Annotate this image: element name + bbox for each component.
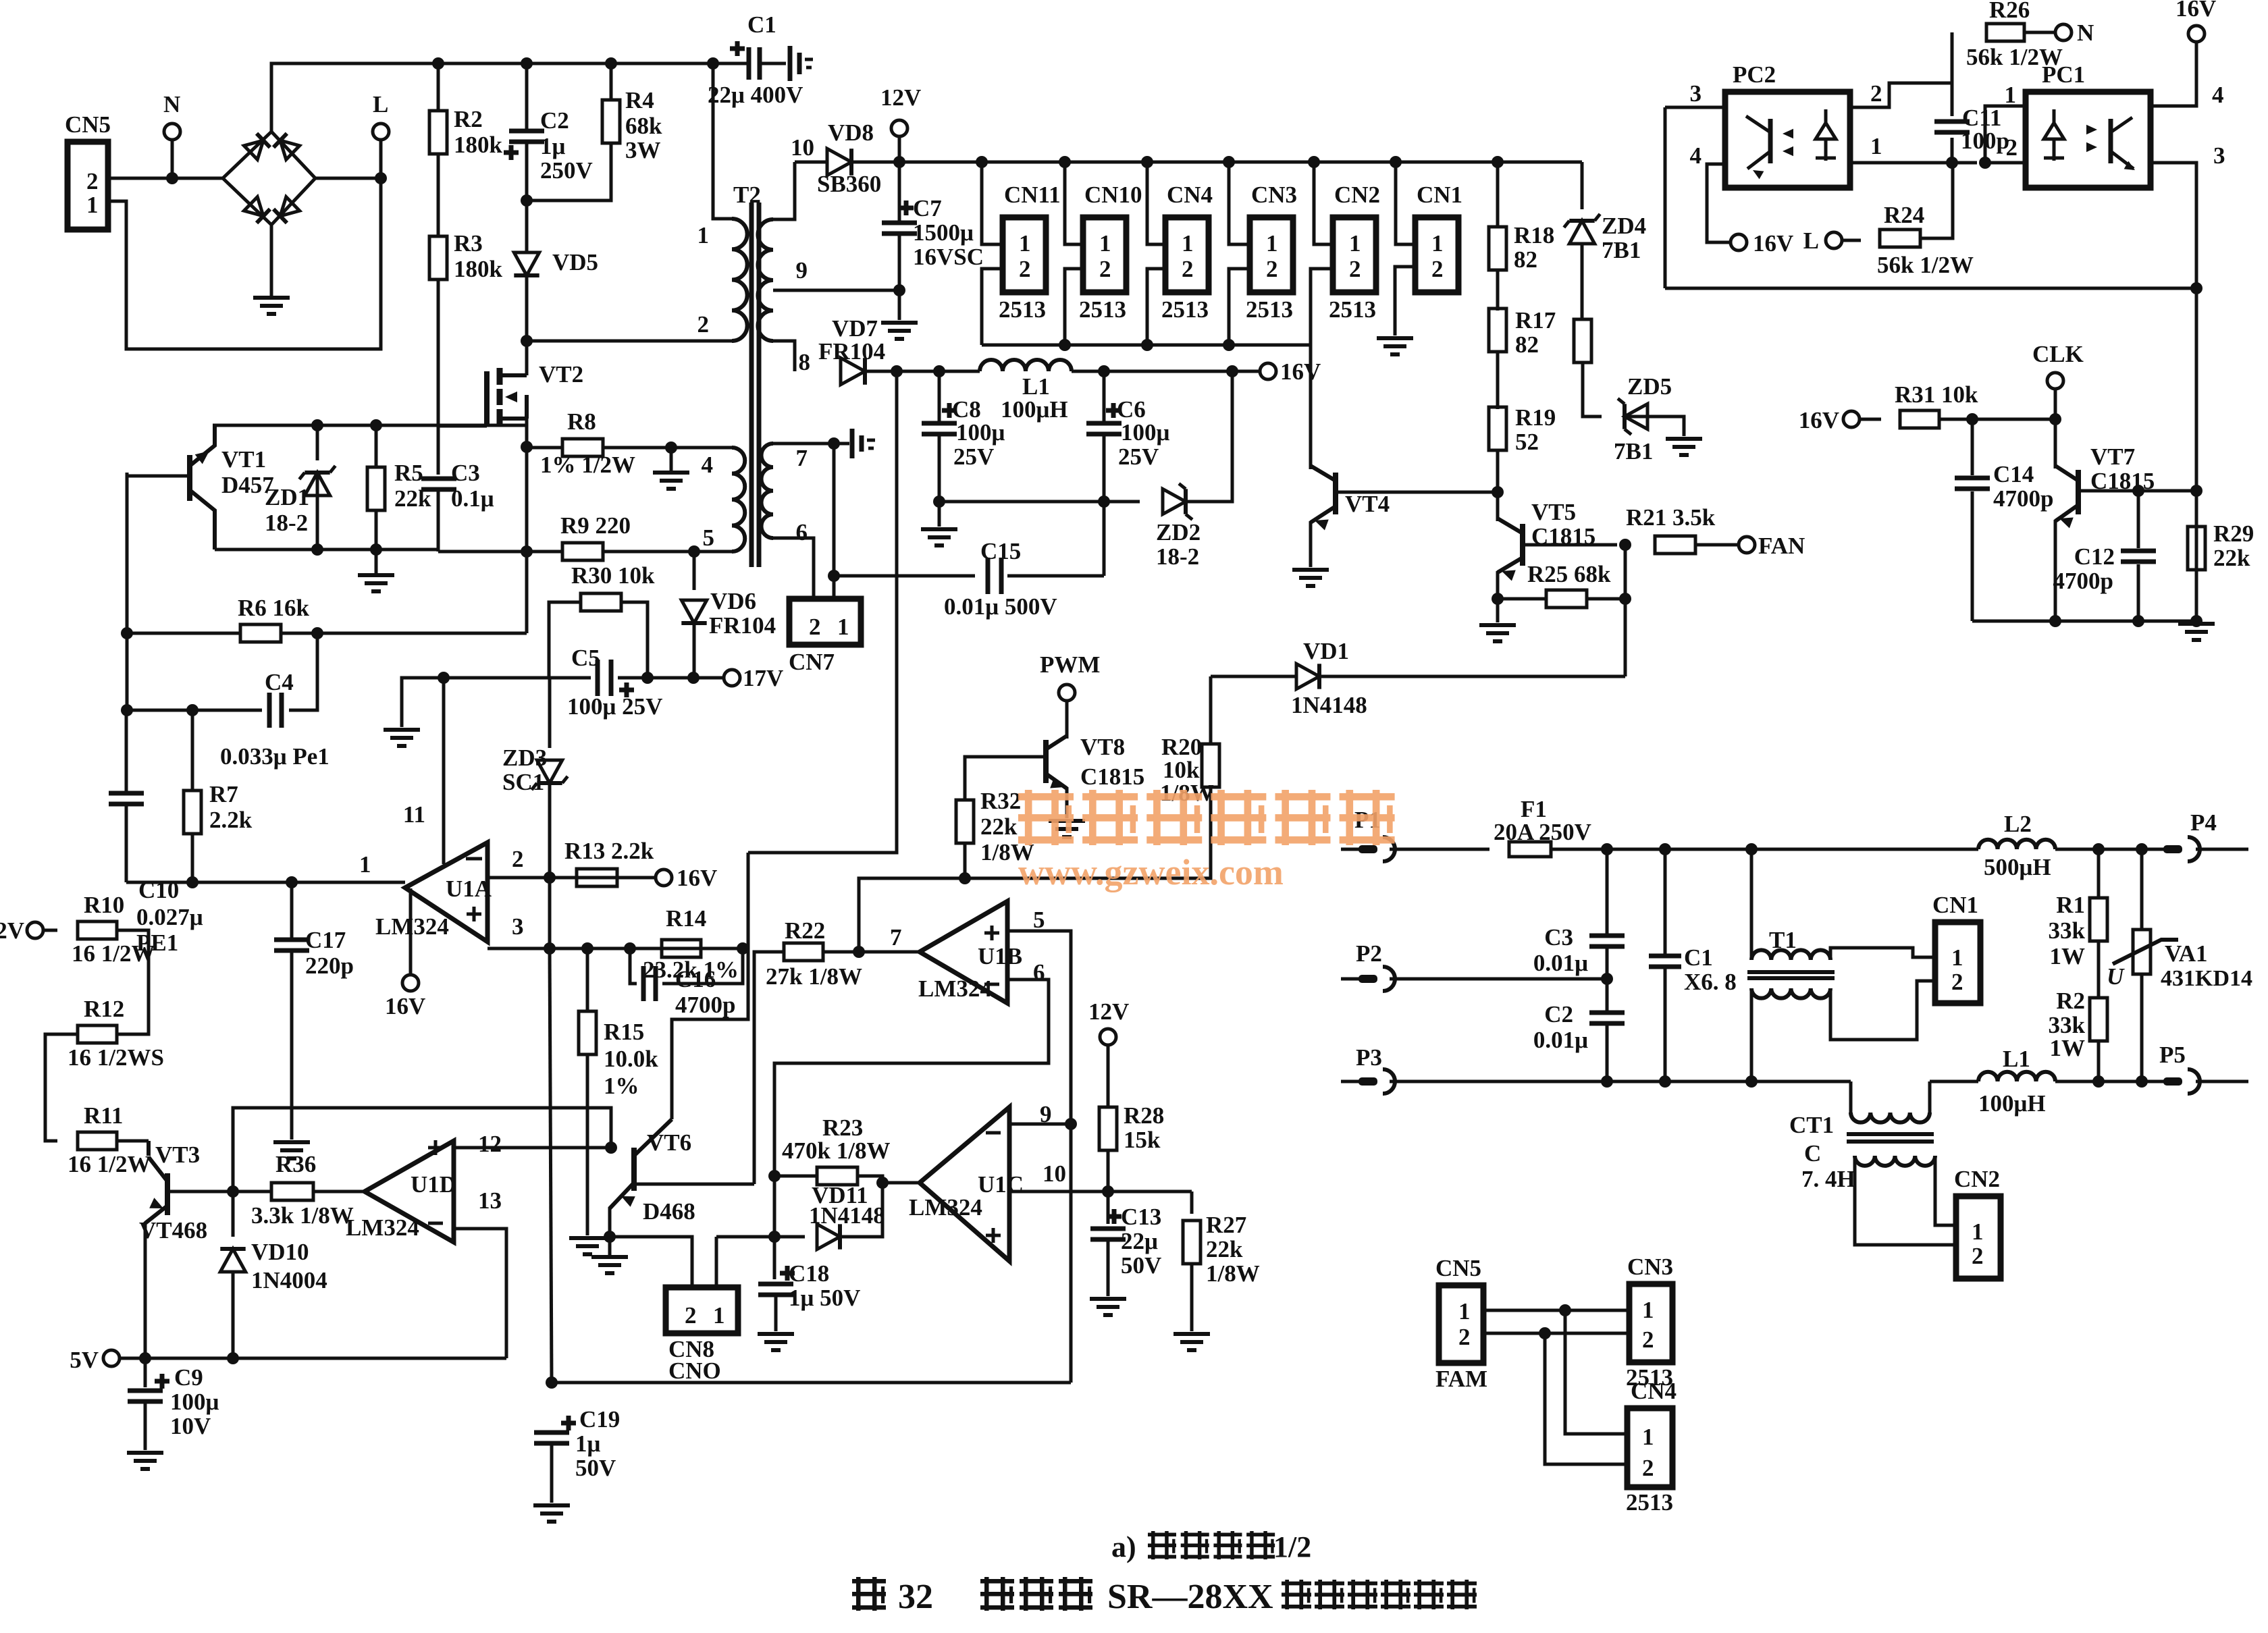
svg-text:4700p: 4700p [2053,568,2113,594]
C1f bot [1664,967,1667,1081]
capacitor C8 [922,423,957,434]
connector CN3 disp [1629,1284,1672,1362]
wire C3 top [437,426,440,475]
svg-text:P4: P4 [2190,809,2217,836]
fuse F1 [1509,842,1551,857]
resistor R17 [1489,309,1506,352]
VT8 coll [1065,701,1069,739]
svg-text:2: 2 [1019,256,1031,282]
node R6 left [121,627,133,639]
node c5 left [438,672,450,684]
connector CN4 disp [1627,1408,1672,1487]
diode VD10 [220,1249,245,1272]
CLK down [2054,389,2057,419]
VT7 emit diag [2055,505,2078,521]
svg-text:2: 2 [1431,256,1444,282]
capacitor C3 filter [1589,936,1625,946]
node vd7 b [933,365,945,377]
svg-text:FR104: FR104 [818,338,885,365]
wire C2 top [525,63,529,131]
node c6 top [1098,365,1110,377]
svg-text:0.01μ: 0.01μ [1533,950,1588,976]
wire bridge top up [270,130,273,134]
svg-text:VD5: VD5 [552,249,598,275]
U1A pin4 16V stub [409,888,413,975]
PC1 innards [2044,123,2064,158]
svg-text:0.033μ Pe1: 0.033μ Pe1 [220,743,329,770]
svg-text:2: 2 [86,168,99,194]
T1 sec right [1830,981,1935,1040]
svg-text:1W: 1W [2050,943,2086,969]
C13 bottom [1107,1239,1110,1296]
node cn4 p1 [1559,1304,1571,1316]
node L-junction [375,172,387,184]
svg-text:CT1: CT1 [1789,1112,1834,1138]
VA1 bot [2140,975,2144,1081]
svg-text:2: 2 [1458,1324,1471,1350]
svg-text:16V: 16V [1280,358,1321,385]
wire bridge bottom [270,225,273,298]
svg-text:CN11: CN11 [1004,182,1061,208]
resistor R14 [662,940,701,957]
C9 plus [155,1374,169,1389]
resistor R19 [1489,407,1506,450]
svg-text:22μ 400V: 22μ 400V [708,82,803,108]
svg-text:1: 1 [86,192,99,218]
wire VT2s down [525,447,529,633]
svg-text:X6. 8: X6. 8 [1684,969,1737,995]
VD10 top wire [232,1192,235,1237]
svg-text:1: 1 [1642,1424,1654,1450]
wire cn8 right pin [715,1237,718,1287]
wire pin9 [773,289,899,292]
node C2-R4 [521,194,533,207]
transformer T2 winding 7-6 [762,444,774,538]
C18 bottom [774,1295,778,1331]
terminal 17V [724,670,740,686]
svg-text:16V: 16V [385,993,425,1019]
C5 plus [619,682,634,697]
svg-text:1N4004: 1N4004 [251,1267,327,1293]
PC2 arrow1 [1783,129,1793,138]
ground C19 [533,1505,570,1522]
capacitor C4 [269,693,282,728]
C19 bottom [550,1443,554,1503]
node gnd vt7 c [2190,615,2203,627]
wire CN5.2 to bridge [108,177,223,180]
C7 top [898,162,901,223]
VT4 base wire [1336,491,1498,494]
CT1 dip right [1928,1081,1932,1113]
svg-text:C16: C16 [675,966,716,992]
svg-text:R24: R24 [1884,202,1924,228]
svg-text:50V: 50V [575,1455,616,1481]
svg-text:1μ: 1μ [575,1430,601,1457]
svg-text:2513: 2513 [1079,296,1126,323]
ground VT5 [1479,625,1516,641]
wire 12V rail2 [851,161,1582,164]
svg-text:1: 1 [697,222,710,248]
capacitor C9 [128,1391,163,1401]
node r21 left [1619,539,1631,551]
resistor R7 [184,791,201,834]
caption a hanzi [1148,1531,1176,1559]
wire L down [379,140,383,178]
svg-text:22k: 22k [2213,545,2250,571]
U1C plus [986,1228,1001,1243]
svg-text:R13 2.2k: R13 2.2k [564,838,654,864]
CT1 sec right [1935,1156,1956,1225]
svg-text:25V: 25V [1118,444,1159,470]
resistor R15 [579,1011,596,1054]
R22 right [823,951,920,954]
svg-text:500μH: 500μH [1984,854,2051,880]
ground R5 [375,550,378,575]
svg-text:1: 1 [359,851,371,878]
wire VT2 source [525,419,529,447]
wire bridge right [315,177,381,180]
resistor R32 [956,800,974,843]
svg-text:1: 1 [1458,1298,1471,1324]
wire zd3 bottom [550,948,552,1383]
node src-R9 [521,545,533,558]
op-amp U1D [365,1141,454,1242]
capacitor C11 [1934,122,1970,132]
svg-text:2: 2 [697,311,710,338]
svg-text:3.3k 1/8W: 3.3k 1/8W [251,1202,354,1229]
wire pin6 [773,538,814,599]
node bus-R4 [605,57,617,70]
svg-text:7: 7 [890,924,902,951]
svg-text:CN1: CN1 [1932,892,1978,918]
resistor R30 [581,593,621,611]
node rail R18 [1492,156,1504,168]
transformer T2 winding 4-5 [732,448,745,552]
R5 top [375,425,378,467]
svg-text:20A 250V: 20A 250V [1494,819,1591,845]
node t1 bot [1745,1075,1758,1088]
VT8 arrow [1050,777,1066,793]
resistor R25 [1546,590,1587,608]
PC1 arrow2 [2086,142,2097,152]
PC2 arrow2 [1783,146,1793,156]
resistor R11 [78,1132,117,1150]
svg-text:R2: R2 [2056,988,2085,1014]
VT7 coll [2054,419,2057,469]
svg-text:U: U [2107,963,2125,990]
C14 top wire [1971,419,1974,475]
terminal 12V u1c [1100,1029,1116,1045]
svg-text:U1C: U1C [978,1171,1024,1198]
svg-text:6: 6 [796,519,808,545]
U1B minus [984,983,999,986]
transformer CT1 secondary [1855,1156,1935,1166]
svg-text:CN2: CN2 [1954,1166,2000,1192]
svg-text:R4: R4 [625,87,654,113]
wire CN2 pin1 stub [1314,162,1333,244]
svg-text:ZD1: ZD1 [265,484,309,510]
R18 top [1496,162,1500,227]
R10 right wire [117,930,149,1034]
ground VT6 [608,1238,612,1257]
wire VT2 drain [525,341,529,375]
wire pin2 [487,876,656,880]
node c5 right [641,672,654,684]
caption fig hanzi2 [980,1577,1014,1611]
wire T2p1 down [713,63,732,219]
node C7 pin9 [893,284,905,296]
node pin1-C17 [286,876,298,888]
svg-text:2513: 2513 [1161,296,1209,323]
svg-text:2: 2 [1972,1243,1984,1269]
VT5 base wire [1523,543,1617,547]
node bus cn3 [1223,339,1235,351]
diode VD6 [681,600,706,623]
svg-text:C18: C18 [789,1260,829,1287]
svg-text:U1B: U1B [978,943,1022,969]
node r25 left [1492,593,1504,605]
ground ZD5 [1666,439,1702,455]
wire C4 right [289,633,317,710]
svg-text:L: L [373,91,388,117]
svg-text:2: 2 [1951,969,1963,995]
svg-text:5: 5 [1033,907,1045,933]
ground VT8 [1049,821,1085,837]
svg-text:VT7: VT7 [2090,444,2135,470]
capacitor C6 [1086,423,1122,434]
wire pin7 stub [834,442,849,446]
wire C1 to gnd [760,62,786,65]
wire pin12 up [233,1108,611,1192]
wire r20 bot [965,787,1211,878]
svg-text:VT2: VT2 [539,361,583,387]
wire pin6 [774,980,1049,1176]
VT8 emitter [1065,787,1069,818]
resistor R1 coil [2090,898,2107,941]
node rail CN11 [976,156,988,168]
wire zd4 top [1581,162,1584,209]
svg-text:1: 1 [1099,230,1111,257]
svg-text:L1: L1 [2003,1046,2030,1072]
C9 bottom [144,1401,147,1450]
svg-text:1: 1 [1182,230,1194,257]
terminal 16V mid [1260,363,1276,379]
wire u1c out [882,1181,920,1185]
svg-text:R22: R22 [785,917,825,944]
C19 plus [561,1416,576,1430]
node clk vt7 [2049,413,2061,425]
svg-text:16V: 16V [677,865,717,891]
zener ZD5 [1618,398,1647,434]
resistor R4 [602,100,620,143]
wire vt4 coll [1309,345,1313,469]
wire vd1 left [1211,675,1296,678]
terminal N [164,124,180,140]
node c3 top [1601,843,1613,855]
wire y1301 [859,878,965,952]
svg-text:SR—28XX: SR—28XX [1107,1578,1273,1616]
svg-text:5V: 5V [70,1347,99,1373]
wire CN3 pin2 stub [1229,269,1250,345]
connector CN2 [1333,217,1376,292]
wire vd1 right [1319,675,1625,678]
R15 top [586,948,589,1011]
wire CN5.1 loop [108,178,381,349]
terminal 16V U1A [402,975,419,991]
wire pin1 [126,881,405,884]
resistor R5 [367,467,385,510]
svg-text:VD6: VD6 [710,588,756,614]
svg-text:R14: R14 [666,905,706,932]
wire cn5-cn3 p1 [1483,1309,1629,1312]
svg-text:CN4: CN4 [1167,182,1213,208]
svg-text:CN1: CN1 [1417,182,1462,208]
svg-text:VT3: VT3 [155,1142,200,1168]
resistor R10 [78,921,117,939]
resistor R8 [562,439,603,456]
svg-text:R10: R10 [84,892,124,918]
node bus-T2p1 [707,57,719,70]
svg-text:22k: 22k [394,485,431,512]
wire zd5 gnd [1625,417,1684,436]
wire R4 top [610,63,613,100]
wire p4 out [2196,848,2248,851]
C10 bottom [125,804,128,882]
VT6 base [634,1183,754,1186]
PC1 emitter arrow [2124,161,2138,174]
svg-text:R36: R36 [275,1151,316,1177]
node r32 bot [959,872,971,884]
svg-text:VA1: VA1 [2165,940,2208,967]
svg-text:CN5: CN5 [65,111,111,138]
transistor VT4 bar [1333,473,1338,514]
svg-text:56k 1/2W: 56k 1/2W [1877,252,1974,278]
node 5v vd10 [227,1352,239,1364]
R30 left [549,602,581,678]
wire N down [171,140,174,178]
node pin7 [853,946,865,958]
svg-text:3: 3 [2213,142,2225,169]
svg-text:2513: 2513 [999,296,1046,323]
node gnd vt7 b [2132,615,2144,627]
zener ZD1 [299,466,335,496]
svg-text:2: 2 [1642,1327,1654,1353]
wire C4 left [127,709,262,712]
svg-text:VT1: VT1 [221,446,266,473]
svg-text:U1A: U1A [446,876,492,902]
svg-text:1μ 50V: 1μ 50V [789,1285,860,1311]
VT6 coll diag [634,1119,672,1156]
mosfet VT2 [484,371,490,426]
R28 bottom [1107,1150,1110,1224]
node cn7 c15 [828,570,840,582]
terminal 12V left [27,922,43,938]
ground bridge [253,298,290,314]
svg-text:R9 220: R9 220 [560,512,631,539]
connector P3 [1341,1080,1360,1083]
node gnd vt7 a [2049,615,2061,627]
svg-text:PWM: PWM [1040,651,1100,678]
svg-text:VT6: VT6 [647,1129,691,1156]
svg-text:C: C [1804,1140,1821,1167]
transformer T1 primary [1751,950,1830,960]
U1B plus [984,926,999,940]
svg-text:VD1: VD1 [1303,638,1349,664]
R6 left [127,632,240,635]
U1A minus [466,857,482,861]
wire p1-f1 [1390,848,1489,851]
diode VD7 [841,358,865,385]
ground CN1 [1377,338,1413,354]
svg-text:2513: 2513 [1246,296,1293,323]
VT4 coll diag [1311,466,1336,481]
zener ZD4 [1564,214,1600,244]
node r1 top [2092,843,2105,855]
svg-text:3: 3 [1690,80,1702,107]
U1D plus [428,1140,443,1155]
svg-text:SC1: SC1 [502,769,544,795]
ground R15 [569,1238,606,1254]
wire c15 right [1007,574,1104,578]
wire vd11 row [716,1235,805,1239]
U1D minus [428,1222,443,1225]
svg-text:4: 4 [2212,82,2224,108]
wire r26 vert [1951,32,1954,116]
svg-text:100μ: 100μ [1121,419,1170,446]
node pin10 c13 [1102,1185,1114,1198]
svg-text:2513: 2513 [1329,296,1376,323]
T1 sec left [1750,988,1753,1081]
varistor VA1 [2133,930,2151,974]
resistor R24 [1880,230,1920,247]
terminal PWM [1059,685,1075,701]
connector CN10 [1083,217,1126,292]
svg-text:VT468: VT468 [139,1217,207,1243]
terminal 16V pc2 [1731,234,1747,250]
wire ZD3 [548,678,552,748]
wire zd4-res [1581,245,1584,320]
R25 left wire [1498,597,1546,601]
12V down [1107,1045,1110,1107]
svg-text:17V: 17V [743,665,783,691]
C7 plus [899,200,914,215]
wire CN3 pin1 stub [1229,162,1250,244]
svg-text:7B1: 7B1 [1614,438,1653,464]
PC2 innards [1768,119,1773,163]
node R7 top [186,704,199,716]
node R6 right [311,627,323,639]
op-amp U1A [405,842,487,942]
svg-text:C13: C13 [1121,1204,1161,1230]
svg-text:C1: C1 [1684,944,1713,971]
C2f bot [1606,1023,1609,1081]
R19 down [1496,450,1500,492]
svg-text:12V: 12V [880,84,921,111]
node rail C7 [893,156,905,168]
svg-text:CN10: CN10 [1084,182,1142,208]
capacitor C12 [2121,551,2156,562]
resistor R3 [429,236,447,279]
R22 left [754,952,784,1184]
svg-text:L2: L2 [2004,811,2032,837]
svg-text:7. 4H: 7. 4H [1801,1166,1855,1192]
svg-text:SB360: SB360 [817,171,881,197]
node pin7 [828,437,840,450]
svg-text:2513: 2513 [1626,1489,1673,1516]
connector P1 [1341,848,1360,851]
wire r21vert [1624,545,1627,676]
r31 left wire [1860,418,1881,421]
